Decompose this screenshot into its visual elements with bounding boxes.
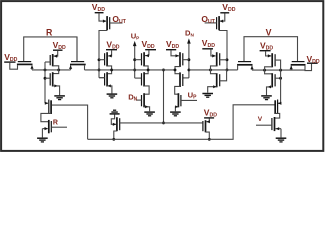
svg-text:R: R [46,28,53,38]
svg-text:R: R [53,119,58,126]
svg-text:V: V [266,28,272,38]
svg-text:V: V [258,116,263,123]
